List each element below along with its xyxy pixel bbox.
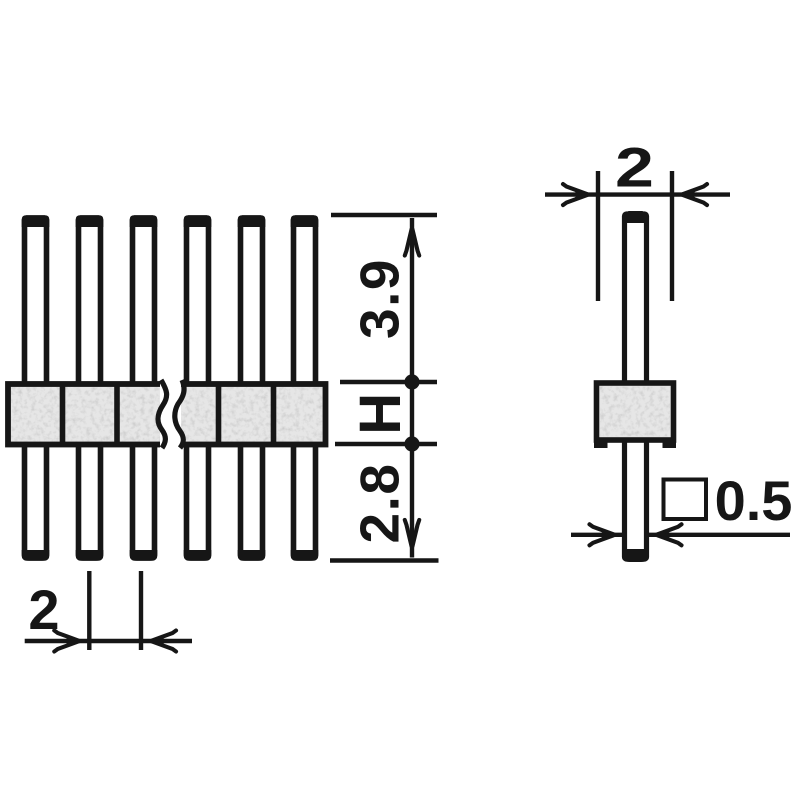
cell divider 4 bbox=[271, 384, 277, 445]
extension line body right bbox=[670, 171, 674, 301]
svg-text:2: 2 bbox=[615, 137, 654, 199]
arrow up at pins top bbox=[405, 218, 419, 256]
vertical dimension line bbox=[410, 218, 414, 558]
svg-text:0.5: 0.5 bbox=[715, 469, 793, 532]
svg-text:3.9: 3.9 bbox=[349, 258, 411, 339]
leader line left bbox=[571, 533, 625, 537]
square symbol bbox=[664, 480, 707, 520]
pin 2 bbox=[76, 215, 104, 561]
svg-text:2: 2 bbox=[28, 578, 59, 641]
svg-text:2.8: 2.8 bbox=[349, 463, 411, 544]
cell divider 2 bbox=[114, 384, 120, 445]
dot at housing top bbox=[404, 374, 419, 389]
svg-text:H: H bbox=[348, 393, 413, 435]
cell divider 3 bbox=[216, 384, 222, 445]
arrow right at pin2 axis bbox=[54, 631, 89, 652]
pin side view bbox=[625, 214, 647, 559]
break wavy line right bbox=[175, 380, 184, 448]
extension line pins bottom bbox=[330, 558, 439, 563]
body foot right bbox=[663, 438, 677, 448]
break wavy line left bbox=[158, 380, 167, 448]
arrow left at body right bbox=[672, 184, 707, 205]
extension line pin3 axis bbox=[139, 571, 143, 650]
pin 3 bbox=[130, 215, 158, 561]
insulator body front view bbox=[8, 384, 326, 445]
pin bottom rounded cap bbox=[622, 549, 649, 562]
extension line housing top bbox=[340, 380, 437, 385]
extension line body left bbox=[596, 171, 600, 301]
dimension line body width bbox=[545, 192, 730, 196]
leader line right bbox=[647, 533, 791, 537]
break gap white-out bbox=[160, 378, 181, 451]
extension line housing bottom bbox=[335, 442, 437, 447]
dot at housing bottom bbox=[404, 436, 419, 451]
pin 1 bbox=[22, 215, 50, 561]
arrow left at pin right edge bbox=[647, 524, 682, 545]
arrow right at body left bbox=[563, 184, 598, 205]
pin 5 bbox=[238, 215, 266, 561]
extension line pin2 axis bbox=[87, 571, 91, 650]
arrow right at pin left edge bbox=[590, 524, 625, 545]
dimension line pitch bbox=[25, 639, 192, 643]
pin top chamfer cap bbox=[622, 211, 649, 223]
insulator body side view bbox=[597, 383, 674, 440]
arrow down at pins bottom bbox=[405, 520, 419, 558]
pin 4 bbox=[184, 215, 212, 561]
pin 6 bbox=[291, 215, 319, 561]
arrow left at pin3 axis bbox=[141, 631, 176, 652]
extension line pins top bbox=[331, 213, 437, 218]
body foot left bbox=[594, 438, 608, 448]
cell divider 1 bbox=[60, 384, 66, 445]
